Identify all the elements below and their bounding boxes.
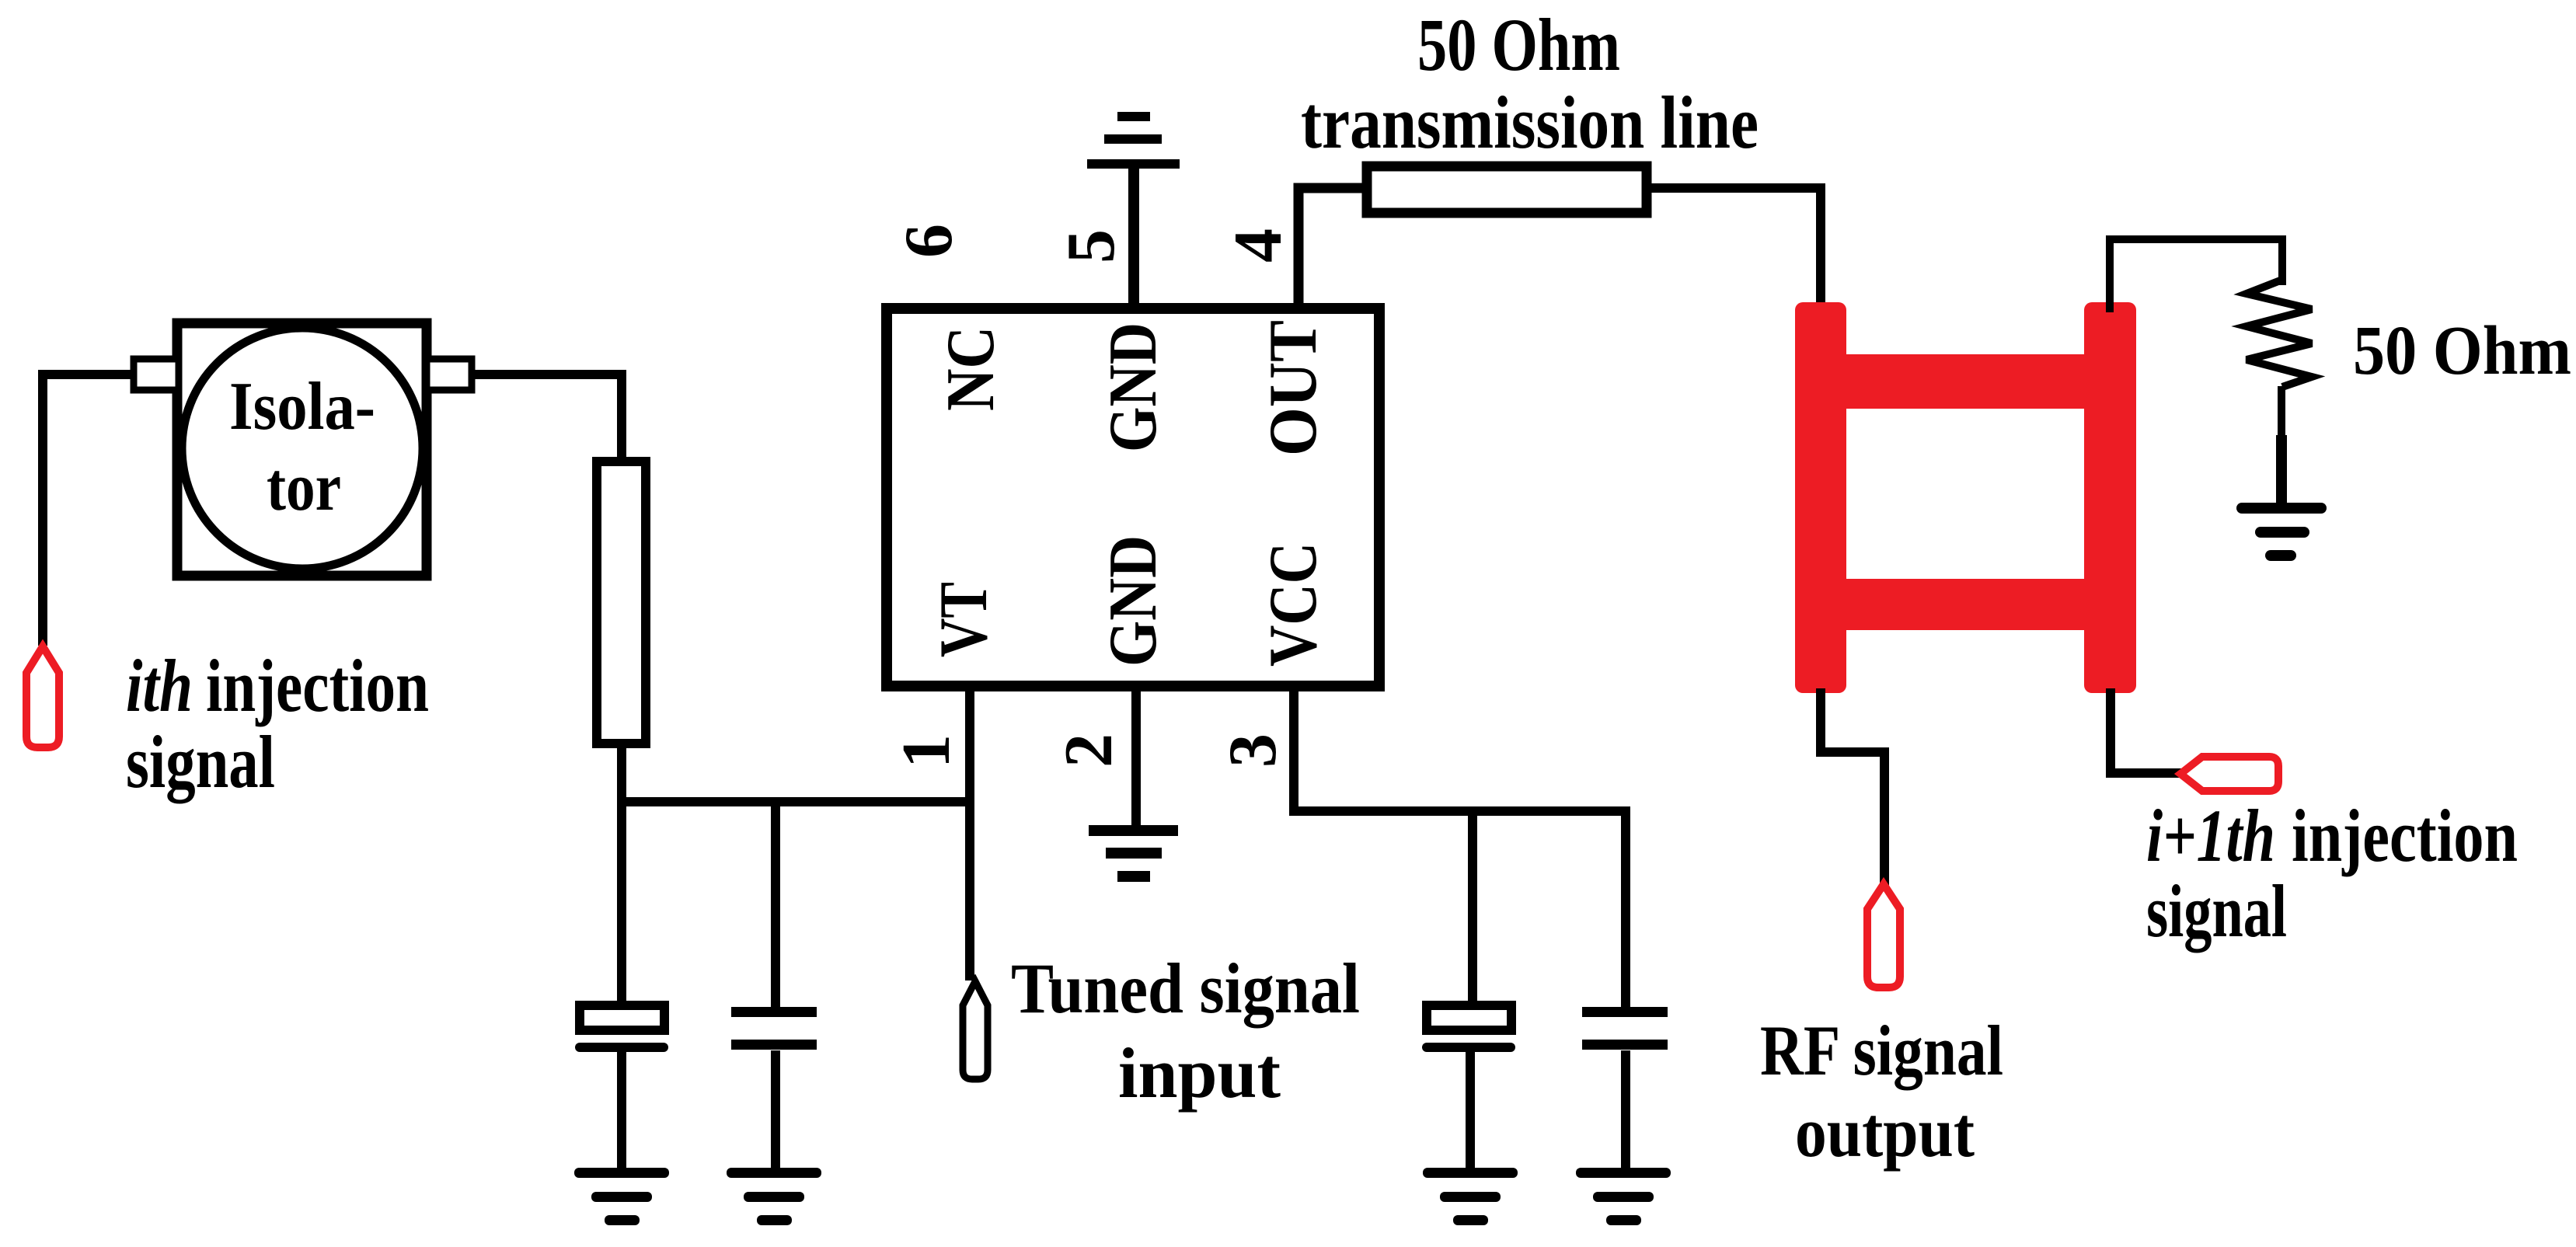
probe i+1th injection (red, horizontal): [2180, 757, 2278, 791]
svg-text:tor: tor: [267, 450, 341, 525]
capacitor C3 bottom plate: [1422, 1043, 1515, 1052]
ground G5: [1576, 1168, 1671, 1225]
wire junction to C2: [771, 802, 780, 1008]
svg-text:ith: ith: [126, 644, 193, 727]
wire pin2 GND to ground: [1131, 686, 1141, 825]
svg-text:VCC: VCC: [1256, 542, 1331, 667]
coupler top bar: [1842, 354, 2089, 409]
wire junction to C1: [617, 797, 626, 1001]
wire pin5 to ground above: [1128, 167, 1139, 308]
svg-text:transmission line: transmission line: [1301, 81, 1759, 164]
ground G6 inverted above pin5: [1087, 112, 1180, 169]
svg-text:i+1th: i+1th: [2146, 794, 2275, 877]
wire coupler bottom-left to RF probe: [1821, 688, 1884, 887]
wire C4 to ground: [1621, 1050, 1630, 1170]
probe RF output (red): [1867, 884, 1900, 987]
svg-text:50 Ohm: 50 Ohm: [2353, 312, 2571, 389]
ground G2: [727, 1168, 821, 1225]
wire C3 branch: [1468, 811, 1477, 1001]
IC U2 VCO body: [887, 308, 1379, 686]
wire C2 to ground: [771, 1050, 780, 1170]
svg-text:injection: injection: [2292, 794, 2518, 877]
inductor L1 (RF choke): [597, 462, 646, 744]
wire pin3 VCC to caps: [1294, 686, 1626, 1008]
resistor R1 zigzag: [2247, 280, 2312, 387]
capacitor C4 bottom plate: [1582, 1040, 1668, 1050]
svg-text:OUT: OUT: [1256, 320, 1331, 456]
coupler (red hybrid): [1795, 302, 2136, 693]
capacitor C4 top plate: [1582, 1007, 1668, 1017]
coupler bottom bar: [1842, 579, 2089, 630]
isolator U1 square: [177, 323, 427, 576]
coupler right bar: [2084, 302, 2136, 693]
svg-text:VT: VT: [926, 582, 1002, 657]
probe ith injection (red): [26, 646, 59, 747]
svg-text:NC: NC: [933, 326, 1009, 411]
svg-text:4: 4: [1221, 228, 1296, 263]
svg-text:RF signal: RF signal: [1760, 1011, 2003, 1090]
wire coupler bottom-right to i+1th probe: [2111, 688, 2182, 773]
svg-text:Tuned signal: Tuned signal: [1011, 949, 1360, 1028]
wire resistor to ground: [2278, 386, 2285, 505]
svg-text:GND: GND: [1096, 322, 1171, 452]
wire C3 to ground: [1466, 1050, 1475, 1170]
wire coupler top-right to resistor: [2110, 239, 2282, 312]
ground G1: [574, 1168, 669, 1225]
svg-text:signal: signal: [2146, 869, 2287, 953]
ground G7 under resistor: [2236, 503, 2327, 561]
svg-text:6: 6: [891, 224, 967, 258]
capacitor C1 bottom plate: [575, 1043, 668, 1052]
wire junction horizontal to pin1: [622, 797, 970, 806]
svg-text:injection: injection: [206, 644, 429, 727]
isolator circle: [182, 328, 423, 569]
capacitor C1 top plate: [580, 1005, 664, 1030]
svg-text:50 Ohm: 50 Ohm: [1417, 3, 1620, 86]
svg-text:input: input: [1118, 1033, 1281, 1113]
probe tuned signal input (black): [963, 981, 988, 1079]
capacitor C2 bottom plate: [731, 1040, 817, 1050]
ground G4: [1423, 1168, 1518, 1225]
wire isolator right to choke L1: [472, 374, 622, 462]
svg-text:2: 2: [1051, 733, 1127, 768]
wire choke to junction: [617, 744, 626, 802]
wire C1 to ground: [617, 1050, 626, 1170]
isolator left port tab: [134, 359, 179, 390]
coupler left bar: [1795, 302, 1846, 693]
svg-text:signal: signal: [126, 720, 275, 803]
wire isolator left to ith probe: [43, 374, 134, 646]
svg-text:output: output: [1795, 1092, 1975, 1172]
wire transmission line to coupler: [1647, 188, 1821, 313]
svg-text:3: 3: [1215, 733, 1291, 768]
isolator right port tab: [427, 359, 472, 390]
wire pin4 OUT to transmission line: [1298, 188, 1368, 308]
svg-text:1: 1: [889, 734, 964, 768]
transmission line TL1: [1367, 166, 1647, 213]
svg-text:5: 5: [1054, 229, 1129, 263]
wire pin1 VT to tuned probe: [965, 686, 974, 981]
capacitor C2 top plate: [731, 1007, 817, 1017]
svg-text:GND: GND: [1096, 535, 1171, 667]
capacitor C3 top plate: [1427, 1005, 1511, 1030]
svg-text:Isola-: Isola-: [229, 369, 375, 444]
ground G3 under pin2: [1089, 825, 1178, 882]
